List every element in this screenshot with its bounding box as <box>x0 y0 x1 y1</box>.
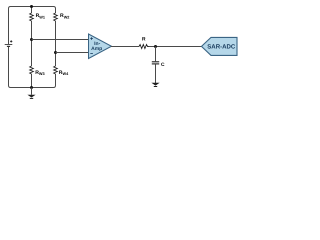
node A dot bridge branch1 mid <box>30 38 33 41</box>
wire bridge outer loop top (left rail upper, top rail, right branch to RW2) <box>9 7 56 45</box>
resistor RW2 <box>54 13 58 21</box>
svg-text:C: C <box>161 62 165 68</box>
node B dot bridge branch2 mid <box>54 51 57 54</box>
node dot top rail junction <box>30 5 33 8</box>
resistor RW1 <box>30 13 34 21</box>
svg-text:RW4: RW4 <box>59 70 69 76</box>
op-amp U1 In-Amp <box>89 34 112 59</box>
wire bridge branch1 vertical <box>31 7 33 88</box>
SAR-ADC block <box>202 37 238 55</box>
wire cap stub upper <box>155 47 157 62</box>
svg-text:RW1: RW1 <box>36 13 45 19</box>
wire bridge branch2 middle segment <box>55 21 57 66</box>
resistor RW3 <box>30 66 34 74</box>
wire bridge outer loop bottom (left rail lower, bottom rail, right branch from RW4) <box>9 47 56 88</box>
resistor R <box>139 45 149 49</box>
wire R to SAR-ADC <box>149 46 202 48</box>
capacitor C <box>152 62 159 64</box>
wire in-amp output to R <box>111 46 139 48</box>
node dot bottom rail junction <box>30 86 33 89</box>
wire node B to in-amp minus input <box>56 52 89 54</box>
wire cap stub lower <box>155 64 157 83</box>
battery V+ <box>5 40 13 46</box>
wire node A to in-amp plus input <box>32 39 89 41</box>
svg-text:RW2: RW2 <box>60 13 69 19</box>
ground bridge <box>27 88 35 99</box>
resistor RW4 <box>54 66 58 74</box>
svg-text:Amp: Amp <box>91 46 102 52</box>
svg-text:SAR-ADC: SAR-ADC <box>207 43 236 50</box>
ground capacitor <box>151 83 159 87</box>
svg-text:RW3: RW3 <box>35 70 44 76</box>
svg-text:R: R <box>142 37 146 43</box>
node dot RC junction <box>154 45 157 48</box>
